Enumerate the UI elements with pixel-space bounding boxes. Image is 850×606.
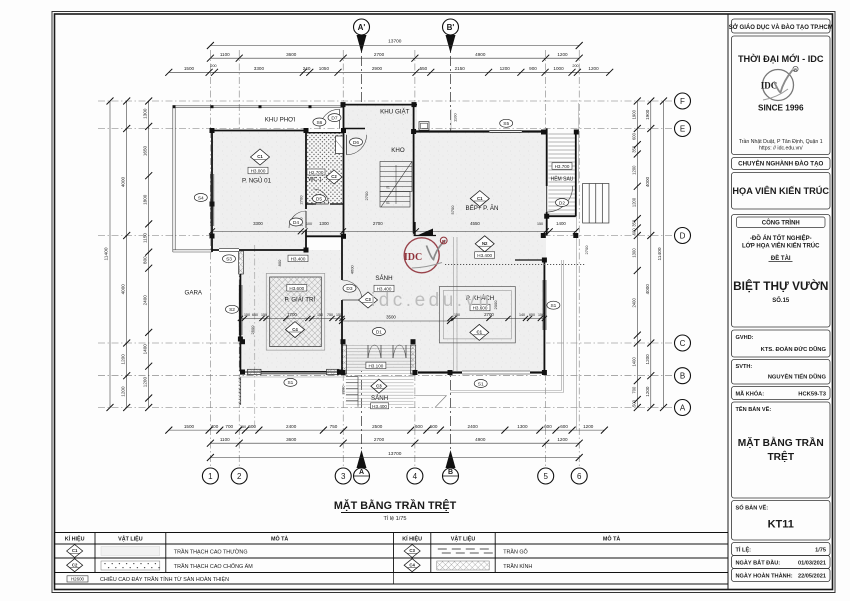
title block: chuyen nghanh <box>732 158 831 170</box>
svg-text:H3.400: H3.400 <box>372 404 387 409</box>
bottom dimension total 13700 <box>210 457 579 459</box>
wall P.NGU01/WC divider <box>305 131 307 210</box>
svg-text:H3.000: H3.000 <box>251 169 266 174</box>
door D4 arc <box>289 211 306 228</box>
svg-text:01: 01 <box>386 186 390 190</box>
svg-text:HCK59-T3: HCK59-T3 <box>798 392 826 398</box>
svg-text:NGÀY BẮT ĐẦU:: NGÀY BẮT ĐẦU: <box>736 559 781 567</box>
title block: logo box <box>732 36 831 155</box>
wall HEM SAU right <box>575 132 577 216</box>
bep labels <box>470 191 489 207</box>
legend footer <box>67 576 88 582</box>
svg-text:01: 01 <box>386 201 390 205</box>
svg-text:B: B <box>448 469 453 476</box>
svg-text:2150: 2150 <box>455 66 466 71</box>
svg-text:650: 650 <box>252 313 258 317</box>
stair break line <box>381 162 412 208</box>
wall P.NGU01 bottom <box>212 249 306 251</box>
svg-text:VẬT LIỆU: VẬT LIỆU <box>118 535 143 543</box>
legend C4 row <box>404 559 420 572</box>
title block: SVTH <box>732 360 831 385</box>
horizontal grid lines <box>98 100 675 102</box>
svg-text:2400: 2400 <box>143 295 148 306</box>
svg-text:SVTH:: SVTH: <box>736 364 753 370</box>
svg-text:Trần Nhật Duật, P Tân Định, Qu: Trần Nhật Duật, P Tân Định, Quận 1 <box>739 139 823 145</box>
svg-text:11400: 11400 <box>657 247 663 260</box>
right dimension total <box>663 101 665 408</box>
svg-text:1200: 1200 <box>557 437 568 442</box>
title block: ngay hoan thanh <box>732 569 831 582</box>
svg-text:S2: S2 <box>229 307 235 313</box>
svg-text:600: 600 <box>560 424 568 429</box>
svg-text:1200: 1200 <box>557 52 568 57</box>
svg-text:GARA: GARA <box>185 290 203 297</box>
svg-text:R: R <box>794 68 797 72</box>
svg-text:NGÀY HOÀN THÀNH:: NGÀY HOÀN THÀNH: <box>736 573 793 580</box>
svg-text:CHUYÊN NGHÀNH ĐÀO TẠO: CHUYÊN NGHÀNH ĐÀO TẠO <box>738 160 823 168</box>
secondary dash line x255 <box>254 245 256 430</box>
svg-text:C2: C2 <box>72 562 78 567</box>
svg-text:400: 400 <box>211 424 219 429</box>
wall KHO right <box>413 105 415 233</box>
svg-text:1050: 1050 <box>319 66 330 71</box>
svg-text:2700: 2700 <box>374 437 385 442</box>
svg-text:1200: 1200 <box>143 377 148 388</box>
svg-text:KHU GIẶT: KHU GIẶT <box>380 109 409 116</box>
svg-text:S1: S1 <box>550 303 556 309</box>
svg-text:VẬT LIỆU: VẬT LIỆU <box>451 535 476 543</box>
svg-text:22/05/2021: 22/05/2021 <box>798 574 826 580</box>
door ovals <box>328 114 341 122</box>
door D2 arc <box>547 186 573 212</box>
svg-text:11400: 11400 <box>104 247 110 260</box>
svg-text:250: 250 <box>240 425 246 429</box>
svg-text:MÃ KHÓA:: MÃ KHÓA: <box>736 390 765 398</box>
svg-text:D5: D5 <box>316 196 322 202</box>
legend table <box>54 532 728 534</box>
svg-text:BIỆT THỰ VƯỜN: BIỆT THỰ VƯỜN <box>733 279 828 293</box>
svg-text:13700: 13700 <box>388 451 402 457</box>
stair arrow KHO <box>395 165 397 204</box>
thin line above bep wall <box>450 109 452 130</box>
section marker A top <box>354 19 370 53</box>
window S5 in BEP top wall <box>489 130 521 132</box>
svg-text:KHO: KHO <box>391 147 405 154</box>
svg-text:600: 600 <box>415 424 423 429</box>
svg-text:2700: 2700 <box>584 245 589 255</box>
svg-text:D6: D6 <box>353 140 359 146</box>
svg-text:S5: S5 <box>503 121 509 127</box>
svg-text:TRẦN KÍNH: TRẦN KÍNH <box>503 563 532 570</box>
svg-text:D3: D3 <box>346 286 352 292</box>
svg-text:700: 700 <box>632 386 637 394</box>
svg-text:1650: 1650 <box>143 146 148 157</box>
svg-text:TRẦN THẠCH CAO THƯỜNG: TRẦN THẠCH CAO THƯỜNG <box>174 549 248 556</box>
wall top khu giat <box>343 104 417 106</box>
svg-text:SINCE 1996: SINCE 1996 <box>758 104 804 113</box>
svg-text:200: 200 <box>572 64 578 68</box>
p giai tri hatch <box>270 277 322 347</box>
room fills <box>212 130 306 250</box>
wall P GIAI TRI left upper hatched band <box>239 251 244 274</box>
svg-text:A': A' <box>358 23 366 32</box>
svg-text:3: 3 <box>341 472 346 481</box>
svg-text:2500: 2500 <box>250 325 255 335</box>
svg-text:1400: 1400 <box>632 357 637 367</box>
svg-text:1200: 1200 <box>121 354 126 365</box>
svg-text:1500: 1500 <box>184 424 195 429</box>
svg-text:5: 5 <box>543 472 548 481</box>
top dimension total 13700 <box>210 45 579 47</box>
porch labels <box>366 362 386 369</box>
hem sau labels <box>552 163 572 170</box>
svg-text:3600: 3600 <box>286 52 297 57</box>
svg-text:CHIỀU CAO ĐÁY TRẦN TÍNH TỪ SÀN: CHIỀU CAO ĐÁY TRẦN TÍNH TỪ SÀN HOÀN THIỆ… <box>100 575 229 583</box>
svg-text:4900: 4900 <box>475 52 486 57</box>
wall axis D corridor <box>306 235 344 237</box>
columns <box>341 102 346 107</box>
svg-text:C1: C1 <box>477 330 483 335</box>
svg-text:350: 350 <box>632 145 637 153</box>
svg-text:IDC: IDC <box>404 252 422 263</box>
svg-text:Tỉ lệ 1/75: Tỉ lệ 1/75 <box>383 515 406 522</box>
svg-text:100: 100 <box>306 222 312 226</box>
svg-text:2700: 2700 <box>484 312 494 317</box>
title block: ngay bat dau <box>732 556 831 569</box>
wall khu giat bottom / kho top <box>343 128 365 130</box>
title block: cong trinh group <box>732 215 831 328</box>
svg-text:2700: 2700 <box>373 221 383 226</box>
svg-text:600: 600 <box>632 132 637 140</box>
svg-text:150: 150 <box>454 313 460 317</box>
svg-text:1100: 1100 <box>220 52 230 57</box>
left dimension outer <box>126 101 128 408</box>
left dimension inner <box>148 101 150 408</box>
svg-text:4000: 4000 <box>645 176 650 187</box>
wall P GIAI TRI bottom with window S1 <box>240 371 342 373</box>
svg-text:6: 6 <box>577 472 582 481</box>
svg-text:KTS. ĐOÀN ĐỨC DŨNG: KTS. ĐOÀN ĐỨC DŨNG <box>761 346 827 353</box>
left dimension total <box>109 101 111 408</box>
svg-text:1300: 1300 <box>632 248 637 258</box>
svg-text:2700: 2700 <box>364 191 369 201</box>
svg-text:500: 500 <box>632 399 637 407</box>
svg-text:NGUYỄN TIẾN DŨNG: NGUYỄN TIẾN DŨNG <box>768 374 827 381</box>
legend C3 row <box>404 545 420 558</box>
svg-text:700: 700 <box>225 424 233 429</box>
svg-text:4: 4 <box>413 472 418 481</box>
svg-text:SẢNH: SẢNH <box>371 395 388 402</box>
svg-text:150: 150 <box>537 222 543 226</box>
svg-text:900: 900 <box>529 66 537 71</box>
interior dim row y318 <box>240 317 342 319</box>
right dimension outer <box>650 101 652 408</box>
title block: GVHD <box>732 330 831 357</box>
svg-text:600: 600 <box>632 228 637 236</box>
door D7 arc <box>320 109 340 129</box>
svg-text:1300: 1300 <box>517 424 528 429</box>
IDC logo <box>761 66 798 100</box>
svg-text:TRẦN GỖ: TRẦN GỖ <box>503 549 528 556</box>
svg-text:C1: C1 <box>72 548 78 553</box>
door D5 arc <box>314 189 329 204</box>
svg-text:TÊN BẢN VẼ:: TÊN BẢN VẼ: <box>736 405 772 413</box>
svg-text:2400: 2400 <box>286 424 297 429</box>
svg-text:BẾP+ P. ĂN: BẾP+ P. ĂN <box>465 205 498 212</box>
WC fill dotted <box>307 133 343 204</box>
svg-text:150: 150 <box>336 313 342 317</box>
svg-text:650: 650 <box>529 313 535 317</box>
svg-text:1000: 1000 <box>553 66 564 71</box>
interior dim row y231 <box>212 230 576 232</box>
svg-text:2: 2 <box>237 472 242 481</box>
p khach ceiling rect <box>439 287 515 343</box>
svg-text:MẶT BẰNG TRẦN TRỆT: MẶT BẰNG TRẦN TRỆT <box>334 499 457 512</box>
svg-text:1100: 1100 <box>220 437 230 442</box>
svg-text:2700: 2700 <box>374 52 385 57</box>
svg-text:H2600: H2600 <box>71 577 84 582</box>
svg-text:idc.edu.vn: idc.edu.vn <box>371 290 493 311</box>
wall BEP bottom partial (axis D) <box>414 235 436 237</box>
top dimension row2 <box>210 57 579 59</box>
gara ramp edge <box>240 377 242 405</box>
wall P KHACH top (beam) <box>515 259 544 261</box>
svg-text:4900: 4900 <box>475 437 486 442</box>
svg-text:C2: C2 <box>331 174 337 179</box>
svg-text:3300: 3300 <box>253 221 263 226</box>
wall P.NGU01 top <box>212 130 306 132</box>
svg-text:1200: 1200 <box>583 424 594 429</box>
svg-text:1200: 1200 <box>632 165 637 175</box>
svg-text:GVHD:: GVHD: <box>736 335 754 341</box>
svg-text:MÔ TẢ: MÔ TẢ <box>271 535 288 543</box>
svg-text:500: 500 <box>430 424 438 429</box>
svg-text:C: C <box>680 339 686 348</box>
window S4 left wall <box>211 174 214 226</box>
wall WC right / KHO left <box>343 105 345 236</box>
svg-text:1300: 1300 <box>319 221 329 226</box>
property diagonal <box>414 395 447 397</box>
wall WC top <box>306 132 344 134</box>
vertical grid lines <box>209 50 211 468</box>
wall BEP right / HEM SAU left <box>546 128 548 186</box>
svg-text:13700: 13700 <box>388 39 402 45</box>
svg-text:3300: 3300 <box>254 66 265 71</box>
svg-text:1/75: 1/75 <box>815 548 826 554</box>
svg-text:TRẦN THẠCH CAO CHỐNG ẨM: TRẦN THẠCH CAO CHỐNG ẨM <box>174 563 253 570</box>
svg-text:TỈ LỆ:: TỈ LỆ: <box>736 546 752 554</box>
svg-text:KÍ HIỆU: KÍ HIỆU <box>65 535 85 543</box>
section marker B top <box>443 19 459 53</box>
svg-text:C1: C1 <box>257 154 263 159</box>
svg-text:D7: D7 <box>331 115 337 121</box>
svg-text:1100: 1100 <box>453 113 458 122</box>
svg-text:1: 1 <box>208 472 213 481</box>
window ovals <box>194 194 207 202</box>
right dimension inner <box>636 101 638 408</box>
svg-text:LỚP HỌA VIÊN KIẾN TRÚC: LỚP HỌA VIÊN KIẾN TRÚC <box>742 242 820 250</box>
svg-text:1900: 1900 <box>645 109 650 120</box>
svg-text:H3.100: H3.100 <box>368 363 383 368</box>
window S2 left wall giai tri <box>239 285 242 335</box>
tag C1 ngu <box>251 149 270 165</box>
axis circles right <box>675 93 691 109</box>
svg-text:150: 150 <box>244 313 250 317</box>
window S1 bottom wall <box>462 371 530 374</box>
svg-text:SỞ GIÁO DỤC VÀ ĐÀO TẠO TP.HCM: SỞ GIÁO DỤC VÀ ĐÀO TẠO TP.HCM <box>729 24 833 31</box>
wall HEM SAU bottom <box>547 215 576 217</box>
title block: so ban ve <box>732 501 831 541</box>
svg-text:150: 150 <box>317 313 323 317</box>
svg-text:THỜI ĐẠI MỚI - IDC: THỜI ĐẠI MỚI - IDC <box>738 53 824 64</box>
IDC stamp <box>404 237 447 273</box>
svg-text:B': B' <box>447 23 455 32</box>
svg-text:A: A <box>359 469 364 476</box>
svg-text:800: 800 <box>143 256 148 264</box>
svg-text:C4: C4 <box>292 327 298 332</box>
svg-text:CÔNG TRÌNH: CÔNG TRÌNH <box>762 219 800 227</box>
svg-text:H2.700: H2.700 <box>309 170 324 175</box>
svg-text:N2: N2 <box>482 241 488 246</box>
svg-text:3500: 3500 <box>386 314 396 319</box>
wall P.NGU01 left <box>211 131 213 253</box>
svg-text:C3: C3 <box>376 383 382 388</box>
svg-text:E: E <box>680 124 685 133</box>
svg-text:H3.400: H3.400 <box>477 253 492 258</box>
svg-text:B: B <box>680 372 685 381</box>
wall P GIAI TRI right (to SANH) <box>341 236 343 280</box>
mid plan pennant <box>417 229 433 236</box>
legend C1 row <box>67 545 83 558</box>
svg-text:1900: 1900 <box>632 109 637 119</box>
svg-text:SẢNH: SẢNH <box>375 275 392 282</box>
main door D1 double arcs <box>368 345 381 358</box>
svg-text:P. NGỦ 01: P. NGỦ 01 <box>242 178 272 185</box>
svg-text:550: 550 <box>420 66 428 71</box>
section marker A bottom <box>354 450 370 484</box>
title block: so giao duc <box>732 19 831 33</box>
svg-text:H3.400: H3.400 <box>291 256 306 261</box>
svg-text:1200: 1200 <box>645 386 650 397</box>
svg-text:D2: D2 <box>559 200 565 206</box>
svg-text:1150: 1150 <box>143 233 148 243</box>
svg-text:4000: 4000 <box>121 176 126 187</box>
property line top right <box>578 103 580 184</box>
svg-text:2900: 2900 <box>372 66 383 71</box>
top dimension row3 <box>169 71 610 73</box>
svg-text:1200: 1200 <box>645 354 650 365</box>
svg-text:S1: S1 <box>478 381 484 387</box>
svg-text:C1: C1 <box>477 196 483 201</box>
stair lower flight <box>380 192 410 208</box>
svg-text:D1: D1 <box>376 329 382 335</box>
khu phoi boundary <box>173 105 343 107</box>
window S1 right wall <box>543 280 546 330</box>
interior dim sanh 3500 <box>342 320 450 322</box>
svg-text:1500: 1500 <box>184 66 195 71</box>
svg-text:500: 500 <box>248 424 256 429</box>
svg-text:SỐ.15: SỐ.15 <box>772 297 790 304</box>
interior dim p khach <box>450 317 544 319</box>
svg-text:S6: S6 <box>316 120 322 126</box>
svg-text:2500: 2500 <box>372 424 383 429</box>
svg-text:1200: 1200 <box>588 66 599 71</box>
porch steps left <box>346 377 358 407</box>
wall BEP top <box>416 130 489 132</box>
title block: hoa vien kien truc <box>732 173 831 210</box>
door D6 arc <box>347 135 367 155</box>
svg-text:WC 1: WC 1 <box>308 177 321 183</box>
svg-text:C3: C3 <box>409 548 415 553</box>
p giai tri labels <box>287 285 307 292</box>
eaves lines canopy near B <box>453 237 455 371</box>
svg-text:H3.600: H3.600 <box>289 286 304 291</box>
door D3 arc <box>342 280 362 300</box>
svg-text:D: D <box>680 231 686 240</box>
svg-text:1300: 1300 <box>143 108 148 119</box>
svg-text:KT11: KT11 <box>768 519 794 531</box>
svg-text:A: A <box>680 403 686 412</box>
porch fill decking <box>346 345 414 407</box>
section marker B bottom <box>443 450 459 484</box>
stairs KHO <box>380 162 412 192</box>
svg-text:S4: S4 <box>198 195 204 201</box>
legend C2 row <box>67 559 83 572</box>
svg-text:200: 200 <box>210 64 216 68</box>
title block: ten ban ve <box>732 402 831 498</box>
bottom dimension row detail <box>169 429 605 431</box>
svg-text:600: 600 <box>544 424 552 429</box>
svg-text:2700: 2700 <box>299 195 304 205</box>
title block: MA KHOA <box>732 387 831 400</box>
section line B <box>450 38 452 462</box>
svg-text:1700: 1700 <box>287 312 297 317</box>
eaves lines right <box>561 260 563 391</box>
HEM SAU fill lines <box>548 132 575 216</box>
wc fixture <box>336 136 344 154</box>
washing machine box <box>419 122 429 131</box>
wall P KHACH bottom <box>418 371 462 373</box>
svg-text:140: 140 <box>519 313 525 317</box>
svg-text:-ĐỒ ÁN TỐT NGHIỆP-: -ĐỒ ÁN TỐT NGHIỆP- <box>750 234 812 242</box>
section line A <box>361 38 363 462</box>
svg-text:1400: 1400 <box>556 221 566 226</box>
svg-text:4600: 4600 <box>349 265 354 275</box>
svg-text:240: 240 <box>303 66 311 71</box>
svg-text:150: 150 <box>261 313 267 317</box>
axis circles bottom <box>202 468 218 484</box>
svg-text:MÔ TẢ: MÔ TẢ <box>603 535 620 543</box>
exterior steps right <box>583 184 609 224</box>
dotted leader <box>445 264 585 266</box>
svg-text:350: 350 <box>632 219 637 227</box>
svg-text:1400: 1400 <box>143 344 148 355</box>
svg-text:3600: 3600 <box>286 437 297 442</box>
h3.400 box giai tri top <box>288 255 308 262</box>
n2 tag <box>475 236 494 252</box>
svg-text:HẺM SAU: HẺM SAU <box>551 176 574 183</box>
svg-text:4000: 4000 <box>121 284 126 295</box>
svg-text:MẶT BẰNG TRẦN: MẶT BẰNG TRẦN <box>738 436 824 449</box>
svg-text:4550: 4550 <box>470 221 480 226</box>
svg-text:750: 750 <box>327 313 333 317</box>
title block: ti le <box>732 543 831 556</box>
wall WC bottom <box>306 203 316 205</box>
svg-text:S1: S1 <box>287 380 293 386</box>
svg-text:S3: S3 <box>226 257 232 263</box>
wall P KHACH right <box>543 260 545 375</box>
svg-text:SỐ BẢN VẼ:: SỐ BẢN VẼ: <box>736 505 769 512</box>
